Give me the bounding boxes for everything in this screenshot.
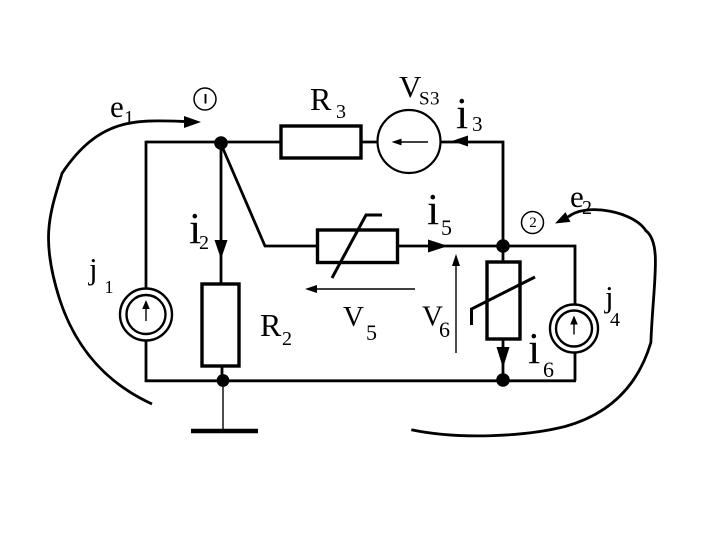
nonlinear resistor element 6 (diagonal arrow): [472, 277, 536, 325]
svg-text:3: 3: [336, 101, 346, 123]
svg-text:5: 5: [441, 215, 452, 240]
current source j1 (outer circle): [120, 289, 172, 341]
wire R3 right to Vs3 left: [361, 141, 378, 144]
wire diagonal from node1 to middle branch: [221, 144, 317, 246]
svg-text:V: V: [343, 301, 364, 333]
wire element5 right to node 2: [398, 245, 503, 248]
resistor R2: [202, 284, 239, 366]
wire node2 down to element 6: [502, 246, 505, 263]
node 1 junction dot: [214, 136, 228, 150]
voltage arrow v6: [455, 264, 457, 353]
svg-text:i: i: [427, 185, 439, 234]
current arrow i2: [215, 240, 228, 259]
svg-text:6: 6: [543, 357, 554, 382]
svg-text:i: i: [528, 324, 540, 373]
bottom-left junction dot: [217, 374, 230, 387]
wire Vs3 right to top-right corner down to node 2: [440, 142, 503, 246]
current arrow i6: [497, 347, 510, 368]
voltage source Vs3 (inner arrow): [397, 141, 428, 143]
svg-text:2: 2: [529, 215, 537, 231]
svg-text:5: 5: [366, 320, 377, 345]
current arrow i5: [428, 240, 448, 253]
wire j1 bottom to bottom rail: [146, 340, 576, 381]
loop arrow e1 (arc): [48, 121, 184, 404]
nonlinear resistor element 5 (diagonal arrow): [332, 215, 382, 278]
loop arrow e2 (head): [555, 212, 571, 223]
svg-text:3: 3: [472, 112, 483, 136]
svg-text:j: j: [88, 251, 98, 286]
wire top-left horizontal (node1 to R3 and left corner): [146, 141, 281, 144]
wire element6 bottom to bottom node: [502, 339, 505, 380]
ground: [222, 381, 224, 430]
svg-text:e: e: [110, 89, 124, 124]
nonlinear resistor element 5 (box): [318, 230, 398, 263]
svg-text:6: 6: [439, 317, 450, 342]
node label 2 (circled): [522, 212, 544, 234]
wire left vertical down to j1: [145, 141, 148, 289]
bottom-right junction dot: [496, 373, 510, 387]
svg-text:S: S: [419, 89, 430, 110]
svg-text:R: R: [260, 307, 282, 343]
current source j4 (outer circle): [550, 305, 598, 353]
node label 1 (circled): [194, 88, 216, 110]
svg-text:R: R: [310, 81, 332, 117]
current source j4 (inner circle): [556, 311, 592, 347]
svg-text:1: 1: [124, 107, 134, 129]
svg-text:i: i: [456, 89, 468, 138]
wire R2 bottom to bottom rail: [221, 366, 224, 380]
svg-text:4: 4: [610, 309, 620, 331]
current source j1 (inner arrow): [145, 307, 147, 321]
wire j4 bottom to bottom rail: [574, 353, 577, 381]
svg-text:1: 1: [105, 277, 114, 297]
current arrow i3: [452, 136, 468, 147]
loop arrow e1 (head): [184, 116, 201, 128]
svg-text:3: 3: [430, 89, 440, 110]
wire node2 right corner down to j4: [503, 246, 575, 306]
wire node1 down to R2 (current i2 path): [220, 143, 223, 284]
resistor R3: [281, 126, 361, 158]
svg-text:2: 2: [282, 328, 292, 350]
svg-text:2: 2: [582, 197, 592, 219]
svg-text:2: 2: [199, 232, 209, 254]
nonlinear resistor element 6 (box): [487, 262, 520, 339]
voltage arrow v5: [313, 288, 415, 290]
node 2 junction dot: [496, 239, 510, 253]
loop arrow e2 (arc): [411, 210, 655, 436]
voltage source Vs3 (circle): [378, 110, 441, 173]
current source j4 (inner arrow): [573, 323, 575, 335]
current source j1 (inner circle): [127, 295, 166, 334]
